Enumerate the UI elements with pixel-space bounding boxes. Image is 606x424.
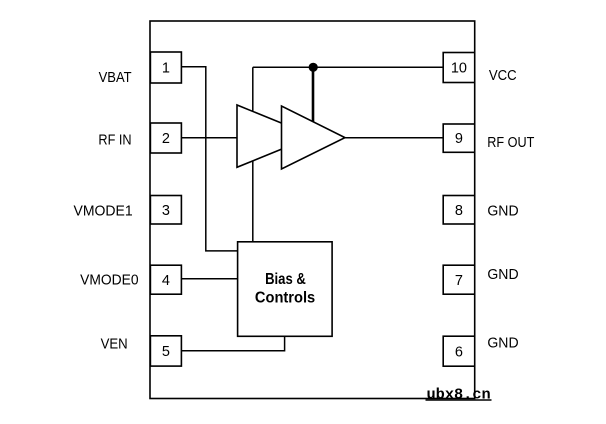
svg-text:9: 9 <box>455 131 463 147</box>
svg-text:GND: GND <box>487 204 518 220</box>
IC package outline <box>150 21 475 399</box>
wire VEN pin5 to Bias block bottom <box>182 336 285 351</box>
svg-text:7: 7 <box>455 273 463 289</box>
svg-text:2: 2 <box>162 131 170 147</box>
wire RF OUT from A2 apex to pin9 <box>344 137 443 139</box>
pin 3 box <box>150 196 181 225</box>
pin 7 box <box>443 265 475 294</box>
svg-text:Controls: Controls <box>255 289 315 306</box>
pin 8 box <box>443 196 475 225</box>
pin 10 box <box>443 53 475 83</box>
svg-text:RF OUT: RF OUT <box>487 135 534 151</box>
svg-text:3: 3 <box>162 203 170 219</box>
pin 2 box <box>150 123 181 153</box>
wire VMODE0 pin4 to Bias block <box>182 278 239 280</box>
svg-text:VBAT: VBAT <box>99 70 132 86</box>
svg-text:VMODE0: VMODE0 <box>80 273 139 289</box>
svg-text:1: 1 <box>162 61 170 77</box>
junction dot on VCC rail <box>309 63 318 72</box>
svg-text:ubx8.cn: ubx8.cn <box>427 388 491 404</box>
wire VBAT pin1 to Bias block <box>182 67 238 251</box>
svg-text:10: 10 <box>451 61 467 77</box>
pin 4 box <box>150 265 181 294</box>
wire RF IN pin2 to amplifier A1 input <box>182 137 239 139</box>
svg-text:VCC: VCC <box>489 68 517 84</box>
watermark underline <box>426 399 492 401</box>
svg-text:VEN: VEN <box>101 337 128 353</box>
amplifier stage 1 triangle <box>237 105 314 167</box>
wire A1 supply tap / bias feed vertical <box>252 67 254 242</box>
wire VCC drop to amplifier A2 <box>312 67 315 135</box>
svg-text:6: 6 <box>455 345 463 361</box>
pin 1 box <box>150 52 181 83</box>
svg-text:4: 4 <box>162 273 170 289</box>
wire VCC rail to pin10 <box>253 66 443 68</box>
pin 9 box <box>443 124 475 152</box>
amplifier stage 2 triangle <box>282 106 346 169</box>
svg-text:VMODE1: VMODE1 <box>74 203 133 219</box>
pin 6 box <box>443 336 475 366</box>
svg-text:8: 8 <box>455 203 463 219</box>
Bias & Controls block <box>238 242 333 336</box>
svg-text:5: 5 <box>162 344 170 360</box>
svg-text:GND: GND <box>487 267 518 283</box>
pin 5 box <box>150 336 181 366</box>
svg-text:RF IN: RF IN <box>98 133 131 149</box>
svg-text:GND: GND <box>487 336 518 352</box>
svg-text:Bias &: Bias & <box>265 271 306 288</box>
